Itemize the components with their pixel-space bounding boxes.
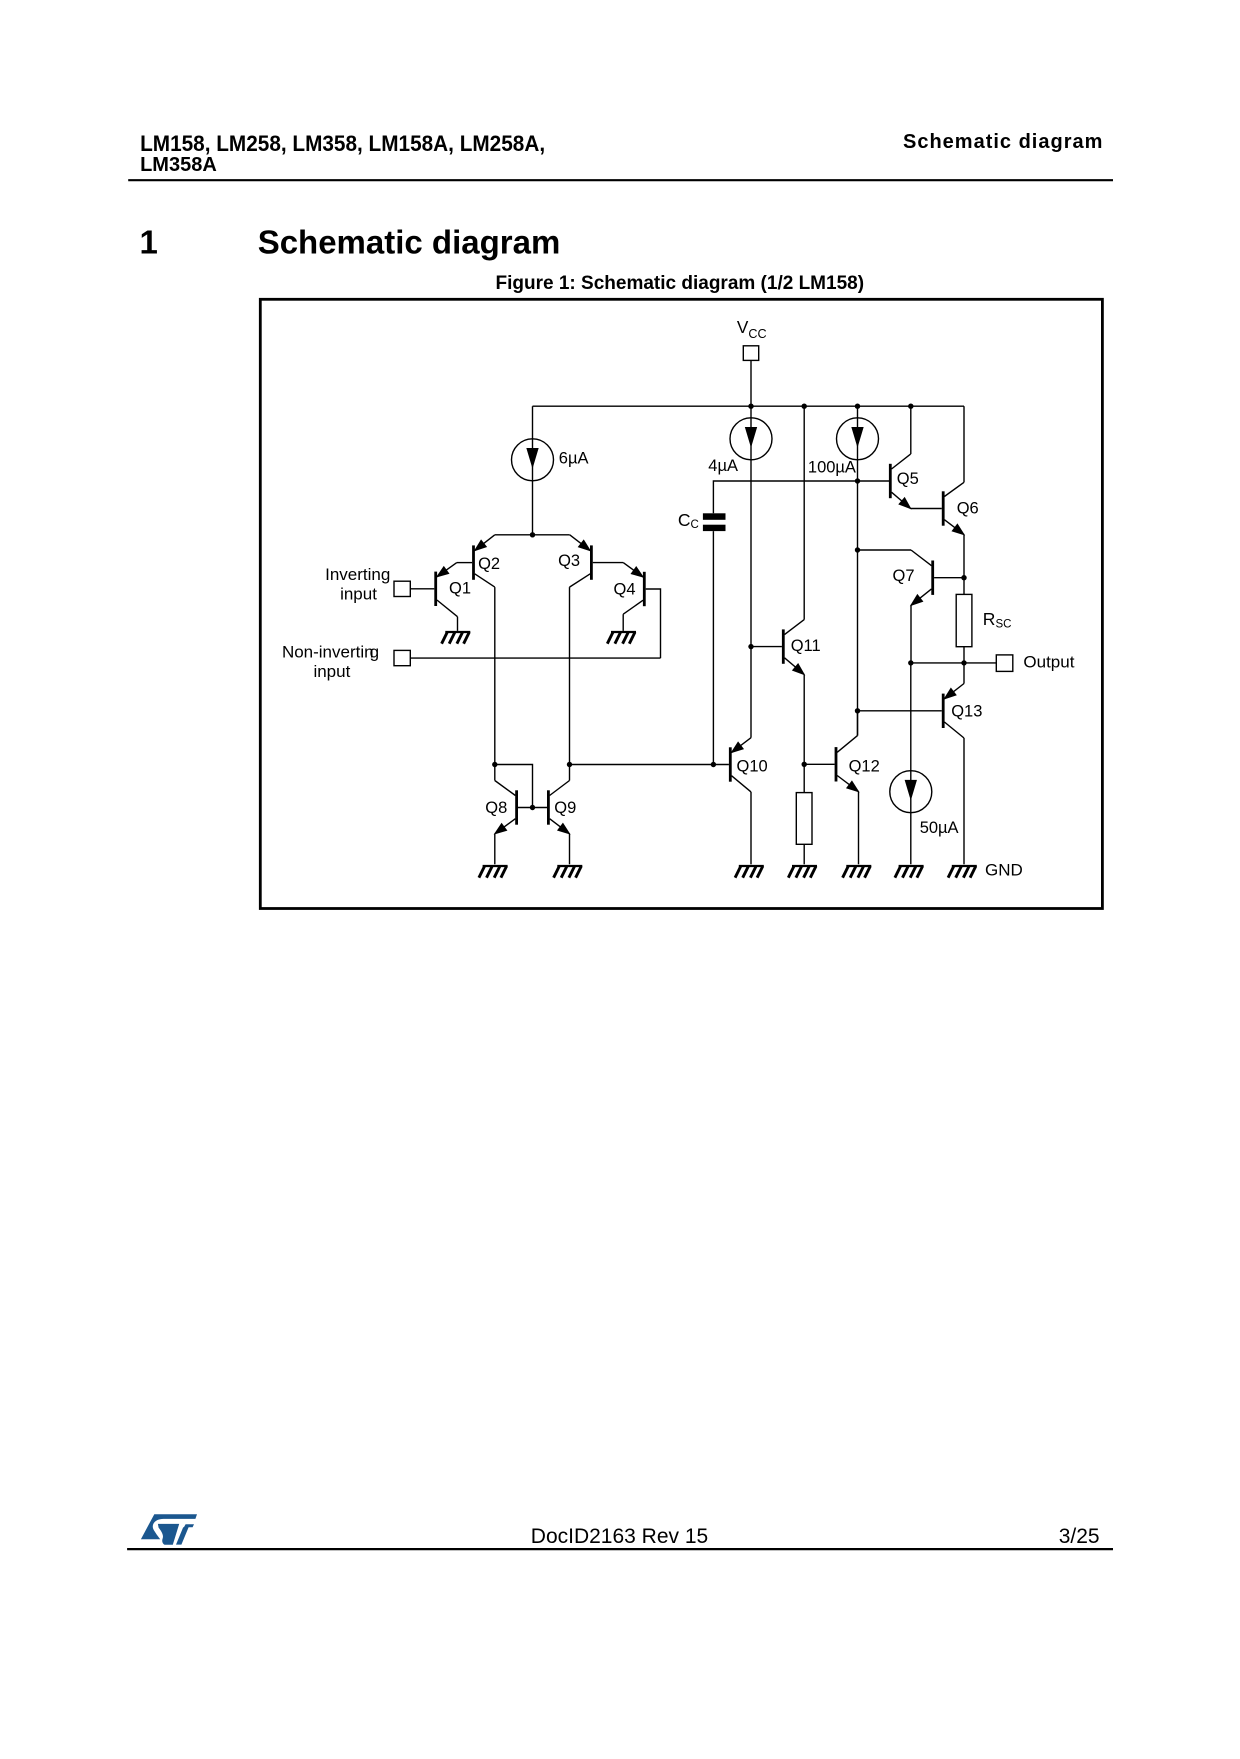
svg-text:CC: CC xyxy=(678,510,699,531)
svg-text:input: input xyxy=(340,584,377,603)
node output junction xyxy=(961,660,966,665)
svg-text:1: 1 xyxy=(140,223,158,260)
current source 4uA xyxy=(730,418,772,460)
svg-text:4µA: 4µA xyxy=(708,457,738,475)
svg-text:Q9: Q9 xyxy=(554,799,576,817)
wire non-inverting input line xyxy=(410,657,660,659)
svg-text:Schematic diagram: Schematic diagram xyxy=(258,223,561,260)
wire Q12 base xyxy=(804,763,834,765)
ground 50uA xyxy=(895,866,924,878)
svg-text:VCC: VCC xyxy=(737,317,767,341)
wire Q7 emitter down xyxy=(910,605,912,663)
node Q13 base junction xyxy=(855,708,860,713)
svg-text:3/25: 3/25 xyxy=(1059,1525,1100,1548)
wire Q4 base down xyxy=(646,589,661,658)
svg-text:Non-inverting: Non-inverting xyxy=(282,642,379,661)
wire Q8 emitter to ground xyxy=(494,834,496,865)
wire Q13 emitter up xyxy=(963,663,965,684)
wire Q12 collector up xyxy=(857,711,859,736)
wire Q2 base xyxy=(457,562,472,564)
svg-text:Q3: Q3 xyxy=(558,552,580,570)
svg-text:6µA: 6µA xyxy=(559,450,589,468)
wire Q2 collector down xyxy=(494,587,496,764)
svg-text:Inverting: Inverting xyxy=(325,565,390,584)
svg-text:DocID2163 Rev 15: DocID2163 Rev 15 xyxy=(531,1525,708,1548)
wire resistor to ground xyxy=(803,844,805,864)
svg-text:Q13: Q13 xyxy=(951,703,982,721)
transistor Q1 xyxy=(436,563,458,617)
wire output line xyxy=(911,662,997,664)
ground resistor xyxy=(788,866,817,878)
wire Q2-Q8 collector node down xyxy=(494,765,496,781)
svg-text:Figure 1: Schematic diagram (1: Figure 1: Schematic diagram (1/2 LM158) xyxy=(496,273,865,294)
wire node to resistor xyxy=(803,764,805,792)
transistor Q2 xyxy=(474,535,495,587)
ground Q13 collector GND xyxy=(948,866,977,878)
wire 50uA column xyxy=(910,663,912,864)
ground Q4 collector xyxy=(607,632,636,644)
wire Q7 base node to Rsc xyxy=(963,578,965,595)
node rail-Vcc junction xyxy=(748,404,753,409)
transistor Q10 xyxy=(730,738,751,792)
svg-text:Q10: Q10 xyxy=(737,758,768,776)
wire Q3 collector down xyxy=(569,587,571,764)
wire Q1 collector to ground xyxy=(457,617,459,631)
resistor RSC xyxy=(956,594,972,646)
inverting input terminal square xyxy=(394,581,410,596)
transistor Q4 xyxy=(623,563,644,615)
ground Q12 emitter xyxy=(843,866,872,878)
transistor Q12 xyxy=(836,736,859,792)
wire Q7 base xyxy=(934,577,964,579)
node rail-Q5 junction xyxy=(908,404,913,409)
wire Q4 collector to ground xyxy=(622,614,624,631)
transistor Q11 xyxy=(783,620,804,675)
wire Q13 base xyxy=(858,710,942,712)
header rule xyxy=(128,179,1113,181)
wire Q13 collector to ground xyxy=(963,738,965,864)
transistor Q13 xyxy=(943,684,964,739)
svg-text:50µA: 50µA xyxy=(920,819,959,837)
wire Q8-Q9 base tie xyxy=(518,807,547,809)
wire mirror node to bases corner xyxy=(495,765,533,808)
ground Q10 collector xyxy=(735,866,764,878)
wire 4uA column xyxy=(750,406,752,738)
wire Q11 base xyxy=(751,646,782,648)
current source 100uA xyxy=(837,418,879,460)
footer rule xyxy=(127,1548,1113,1550)
svg-text:Q1: Q1 xyxy=(449,579,471,597)
wire rail corner to Q6 collector xyxy=(963,406,965,482)
wire Q10 collector to ground xyxy=(750,792,752,864)
footer ST logo xyxy=(141,1514,197,1545)
svg-text:LM158, LM258, LM358, LM158A, L: LM158, LM258, LM358, LM158A, LM258A, xyxy=(140,131,545,156)
current source 6uA xyxy=(512,439,554,481)
svg-text:Q2: Q2 xyxy=(478,555,500,573)
wire Q11 collector column xyxy=(803,406,805,619)
node rail-100uA junction xyxy=(855,404,860,409)
svg-text:Output: Output xyxy=(1023,653,1074,672)
wire tail to Q3 emitter xyxy=(533,534,570,536)
wire Q11 emitter down xyxy=(803,675,805,765)
output terminal square xyxy=(996,655,1013,672)
svg-text:Q8: Q8 xyxy=(485,799,507,817)
ground Q9 emitter xyxy=(554,866,583,878)
svg-text:GND: GND xyxy=(985,860,1023,879)
node Q3-Q9 collectors xyxy=(567,762,572,767)
svg-text:Q11: Q11 xyxy=(791,637,821,655)
wire Cc bottom to Q10 base node xyxy=(712,531,714,764)
wire Rsc to output node xyxy=(963,647,965,663)
svg-text:RSC: RSC xyxy=(983,609,1012,631)
svg-text:Q5: Q5 xyxy=(897,470,919,488)
svg-text:LM358A: LM358A xyxy=(140,154,217,176)
svg-text:100µA: 100µA xyxy=(808,458,856,476)
wire 6uA column xyxy=(532,406,534,535)
wire Q3 base xyxy=(593,562,623,564)
svg-text:Schematic diagram: Schematic diagram xyxy=(903,131,1102,153)
transistor Q8 xyxy=(495,781,517,834)
node Cc-Q10 base junction xyxy=(711,762,716,767)
node Q2-Q8 collectors xyxy=(492,762,497,767)
wire Q5 emitter to Q6 base xyxy=(911,508,942,510)
node Q8-Q9 bases xyxy=(530,805,535,810)
transistor Q7 xyxy=(911,550,933,605)
node Q11 emitter - Q12 base xyxy=(802,762,807,767)
wire Q7 collector to 100uA column xyxy=(858,549,912,551)
svg-text:input: input xyxy=(313,662,350,681)
node Cc-Q5 base junction xyxy=(855,478,860,483)
node input pair tail xyxy=(530,532,535,537)
wire Q9 emitter to ground xyxy=(569,834,571,865)
node Q7 emitter - output xyxy=(908,660,913,665)
current source 50uA xyxy=(890,771,932,813)
wire Cc top to Q5 base xyxy=(713,481,889,513)
wire Q12 emitter to ground xyxy=(858,792,860,865)
wire top supply rail xyxy=(533,405,965,407)
ground Q8 emitter xyxy=(479,866,508,878)
svg-text:Q12: Q12 xyxy=(849,758,880,776)
Vcc terminal square xyxy=(743,346,758,361)
wire second stage base line xyxy=(570,764,729,766)
capacitor CC plates xyxy=(703,513,726,531)
svg-text:Q6: Q6 xyxy=(957,499,979,517)
node rail-Q11 junction xyxy=(802,404,807,409)
ground Q1 collector xyxy=(442,632,471,644)
node Q11 base junction xyxy=(748,644,753,649)
wire tail to Q2 emitter xyxy=(495,534,533,536)
wire Q9 collector up xyxy=(569,765,571,781)
svg-text:Q4: Q4 xyxy=(614,581,636,599)
transistor Q5 xyxy=(890,454,910,508)
wire Q5 collector to rail xyxy=(910,406,912,454)
transistor Q3 xyxy=(570,535,592,587)
wire inverting input to Q1 base xyxy=(410,588,434,590)
figure border box xyxy=(260,299,1102,908)
resistor R1 (Q12 base-emitter) xyxy=(796,793,812,845)
svg-text:Q7: Q7 xyxy=(893,567,915,585)
wire Vcc to rail xyxy=(750,360,752,406)
transistor Q6 xyxy=(943,482,964,534)
wire Q6 emitter down xyxy=(963,535,965,578)
node Q6 emitter - Q7 base xyxy=(961,575,966,580)
non-inverting input terminal square xyxy=(394,650,410,665)
node Q7 collector junction xyxy=(855,547,860,552)
wire 100uA column xyxy=(857,406,859,735)
transistor Q9 xyxy=(548,781,569,834)
